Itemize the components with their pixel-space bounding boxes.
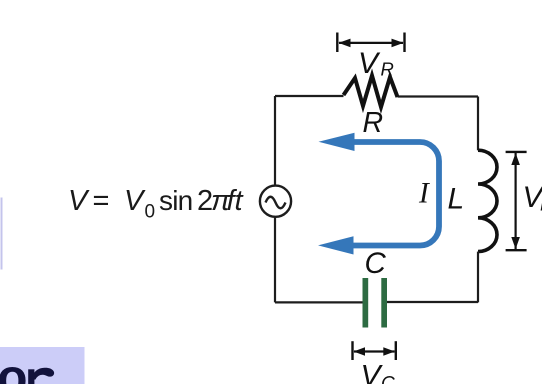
current arrow I (blue loop) [318, 133, 439, 255]
inductor L [478, 150, 497, 251]
svg-text:V: V [124, 185, 146, 217]
wire: right side, upper [477, 97, 479, 151]
label V_C [361, 360, 396, 384]
dimension arrow V_R [337, 33, 404, 53]
wire: bottom side, left segment [275, 301, 363, 303]
left edge highlight border [1, 198, 3, 270]
wire: right side, lower [477, 252, 479, 303]
svg-text:ft: ft [227, 185, 245, 217]
svg-text:I: I [418, 178, 430, 210]
svg-text:V: V [68, 185, 90, 217]
label V_L [523, 181, 542, 215]
svg-text:R: R [381, 59, 394, 80]
wire: left side, upper [274, 96, 276, 186]
wire: top side, left segment [275, 95, 344, 97]
svg-text:sin: sin [159, 185, 192, 216]
svg-text:=: = [93, 185, 110, 217]
svg-text:C: C [381, 374, 395, 384]
ac source [260, 186, 291, 217]
wire: top side, right segment [398, 95, 479, 97]
dimension arrow V_C [353, 341, 396, 360]
capacitor C [363, 278, 388, 328]
svg-text:V: V [358, 47, 381, 80]
svg-text:L: L [448, 183, 465, 216]
resistor R [344, 76, 398, 108]
wire: left side, lower [274, 217, 276, 303]
svg-text:o: o [0, 349, 28, 384]
dimension arrow V_L [506, 152, 527, 250]
svg-text:R: R [363, 107, 384, 139]
highlighted heading fragment "or" [0, 347, 85, 384]
svg-text:0: 0 [145, 202, 156, 223]
label: source equation V = V0 sin 2pi f t [68, 185, 245, 223]
wire: bottom side, right segment [387, 301, 478, 303]
svg-text:C: C [365, 247, 387, 280]
label V_R [358, 47, 394, 80]
